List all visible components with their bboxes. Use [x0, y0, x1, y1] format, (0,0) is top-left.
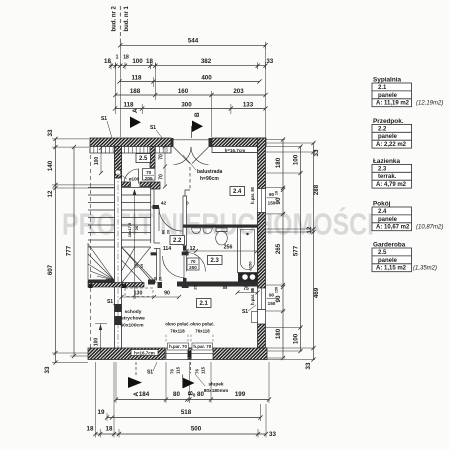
svg-text:160: 160: [178, 88, 189, 95]
svg-text:1: 1: [116, 55, 119, 61]
svg-text:90: 90: [269, 192, 275, 197]
svg-text:76: 76: [195, 369, 200, 374]
svg-text:777: 777: [66, 245, 73, 256]
svg-text:180: 180: [275, 328, 282, 339]
svg-text:518: 518: [181, 409, 192, 416]
svg-text:100: 100: [94, 338, 100, 347]
svg-text:180: 180: [275, 157, 282, 168]
svg-text:h.par. 80: h.par. 80: [250, 186, 255, 204]
svg-text:2.3: 2.3: [378, 166, 387, 172]
svg-text:75: 75: [243, 286, 249, 292]
svg-text:76x118: 76x118: [170, 329, 185, 334]
svg-text:150: 150: [275, 287, 279, 293]
svg-text:60x100cm: 60x100cm: [121, 323, 144, 329]
svg-text:Sypialnia: Sypialnia: [373, 76, 402, 83]
svg-text:19: 19: [140, 264, 144, 268]
svg-text:2.4: 2.4: [378, 209, 387, 215]
svg-text:18: 18: [106, 426, 113, 433]
svg-text:577: 577: [293, 245, 300, 256]
svg-text:256: 256: [224, 244, 233, 250]
svg-text:h=16,7cm: h=16,7cm: [134, 350, 155, 355]
svg-text:300: 300: [181, 102, 192, 109]
svg-text:100: 100: [94, 157, 100, 166]
svg-text:20: 20: [159, 277, 163, 281]
svg-text:18: 18: [135, 264, 139, 268]
svg-text:607: 607: [47, 264, 54, 275]
svg-text:2.2: 2.2: [173, 238, 182, 244]
svg-text:26: 26: [134, 225, 139, 230]
svg-text:S1: S1: [147, 370, 153, 376]
svg-text:18: 18: [104, 58, 111, 65]
svg-text:90: 90: [275, 295, 282, 302]
svg-text:76: 76: [170, 369, 175, 374]
svg-text:18: 18: [123, 55, 129, 61]
svg-text:2.3: 2.3: [211, 258, 220, 264]
svg-text:2.1: 2.1: [378, 85, 387, 91]
svg-text:19: 19: [98, 409, 105, 416]
svg-text:A: A: [133, 392, 140, 397]
svg-text:400: 400: [201, 75, 212, 82]
svg-text:140: 140: [47, 160, 54, 171]
svg-text:panele: panele: [378, 217, 398, 223]
svg-text:terrak.: terrak.: [378, 174, 397, 180]
svg-text:h=16,7cm: h=16,7cm: [225, 148, 246, 153]
svg-text:184: 184: [139, 391, 150, 398]
svg-text:2.5: 2.5: [139, 156, 148, 162]
svg-text:bud. nr 1: bud. nr 1: [124, 6, 130, 32]
svg-text:544: 544: [188, 38, 199, 45]
svg-text:115: 115: [176, 366, 181, 374]
svg-text:500: 500: [191, 426, 202, 433]
svg-text:h=90cm: h=90cm: [200, 176, 219, 182]
svg-text:Przedpok.: Przedpok.: [373, 118, 404, 125]
svg-text:2.2: 2.2: [378, 126, 387, 132]
svg-text:A: 10,67 m2: A: 10,67 m2: [376, 225, 410, 231]
svg-text:118: 118: [132, 75, 143, 82]
svg-text:42: 42: [161, 200, 167, 206]
svg-text:bud. nr 2: bud. nr 2: [112, 6, 118, 32]
svg-text:A: A: [132, 108, 139, 113]
svg-text:90: 90: [269, 293, 275, 298]
svg-text:12: 12: [47, 190, 54, 197]
svg-text:okno połać.: okno połać.: [165, 322, 189, 327]
svg-text:Łazienka: Łazienka: [373, 158, 400, 165]
svg-text:33: 33: [44, 366, 51, 373]
svg-text:PROFIT NIERUCHOMOŚCI: PROFIT NIERUCHOMOŚCI: [62, 206, 374, 242]
svg-text:B: B: [194, 112, 201, 117]
svg-text:33: 33: [313, 149, 320, 156]
svg-text:ø100: ø100: [129, 177, 140, 182]
svg-text:(10,87m2): (10,87m2): [416, 225, 443, 231]
svg-text:80x180mm: 80x180mm: [204, 388, 229, 394]
svg-text:h.par. 70: h.par. 70: [169, 344, 187, 349]
svg-text:25: 25: [193, 285, 198, 290]
svg-text:12: 12: [306, 226, 313, 233]
svg-text:8: 8: [251, 288, 253, 292]
svg-text:115: 115: [201, 366, 206, 374]
svg-text:ø150: ø150: [248, 261, 253, 271]
svg-text:20: 20: [166, 229, 171, 234]
svg-text:203: 203: [233, 88, 244, 95]
svg-text:18: 18: [87, 426, 94, 433]
svg-text:S1: S1: [107, 299, 113, 305]
svg-text:A: 2,22 m2: A: 2,22 m2: [376, 142, 407, 148]
svg-text:382: 382: [201, 58, 212, 65]
svg-text:strychowe: strychowe: [121, 316, 145, 322]
svg-text:70: 70: [190, 259, 196, 264]
svg-text:33: 33: [269, 431, 276, 438]
svg-text:A: 4,79 m2: A: 4,79 m2: [376, 182, 407, 188]
svg-text:18x17,5: 18x17,5: [127, 222, 132, 237]
svg-text:33: 33: [266, 58, 273, 65]
svg-text:150: 150: [268, 201, 276, 206]
svg-text:288: 288: [313, 184, 320, 195]
svg-text:130: 130: [134, 290, 143, 296]
svg-text:90: 90: [164, 290, 170, 296]
svg-text:A: 1,15 m2: A: 1,15 m2: [376, 266, 407, 272]
svg-text:okno połać.: okno połać.: [190, 322, 214, 327]
svg-text:469: 469: [313, 287, 320, 298]
svg-text:85: 85: [223, 285, 228, 290]
svg-text:balustrada: balustrada: [197, 169, 223, 175]
svg-text:S1: S1: [150, 125, 156, 131]
svg-text:2.4: 2.4: [233, 189, 242, 195]
svg-text:100: 100: [132, 58, 143, 65]
svg-text:słupek: słupek: [208, 382, 224, 388]
svg-text:100: 100: [293, 333, 300, 344]
svg-text:76x118: 76x118: [195, 329, 210, 334]
svg-text:33: 33: [305, 362, 312, 369]
svg-text:199: 199: [235, 391, 246, 398]
svg-text:70: 70: [159, 174, 165, 180]
svg-text:133: 133: [243, 102, 254, 109]
svg-text:114: 114: [163, 246, 171, 252]
svg-text:(12,19m2): (12,19m2): [416, 101, 443, 107]
svg-text:90: 90: [275, 197, 282, 204]
svg-text:150: 150: [268, 301, 276, 306]
svg-text:200: 200: [189, 265, 197, 270]
svg-text:33: 33: [47, 129, 54, 136]
svg-text:S1: S1: [101, 116, 107, 122]
svg-text:18: 18: [146, 58, 153, 65]
svg-text:panele: panele: [378, 93, 398, 99]
svg-text:h.par. 70: h.par. 70: [193, 344, 211, 349]
svg-text:188: 188: [130, 88, 141, 95]
svg-text:Pokój: Pokój: [373, 200, 391, 207]
svg-text:A: 11,19 m2: A: 11,19 m2: [376, 101, 410, 107]
svg-text:265: 265: [275, 243, 282, 254]
svg-text:118: 118: [124, 102, 135, 109]
svg-text:70: 70: [159, 154, 165, 160]
svg-text:(1,35m2): (1,35m2): [413, 266, 437, 272]
svg-text:205: 205: [145, 176, 153, 181]
svg-text:80: 80: [173, 391, 180, 398]
svg-text:schody: schody: [125, 309, 142, 315]
svg-text:2.5: 2.5: [378, 250, 387, 256]
svg-text:panele: panele: [378, 134, 398, 140]
svg-text:2.1: 2.1: [200, 301, 209, 307]
svg-text:100: 100: [293, 154, 300, 165]
svg-text:70: 70: [146, 170, 152, 175]
svg-text:panele: panele: [378, 258, 398, 264]
svg-text:30: 30: [154, 277, 158, 281]
svg-text:18: 18: [275, 191, 279, 195]
svg-text:Garderoba: Garderoba: [373, 241, 406, 248]
svg-text:S1: S1: [242, 309, 248, 315]
